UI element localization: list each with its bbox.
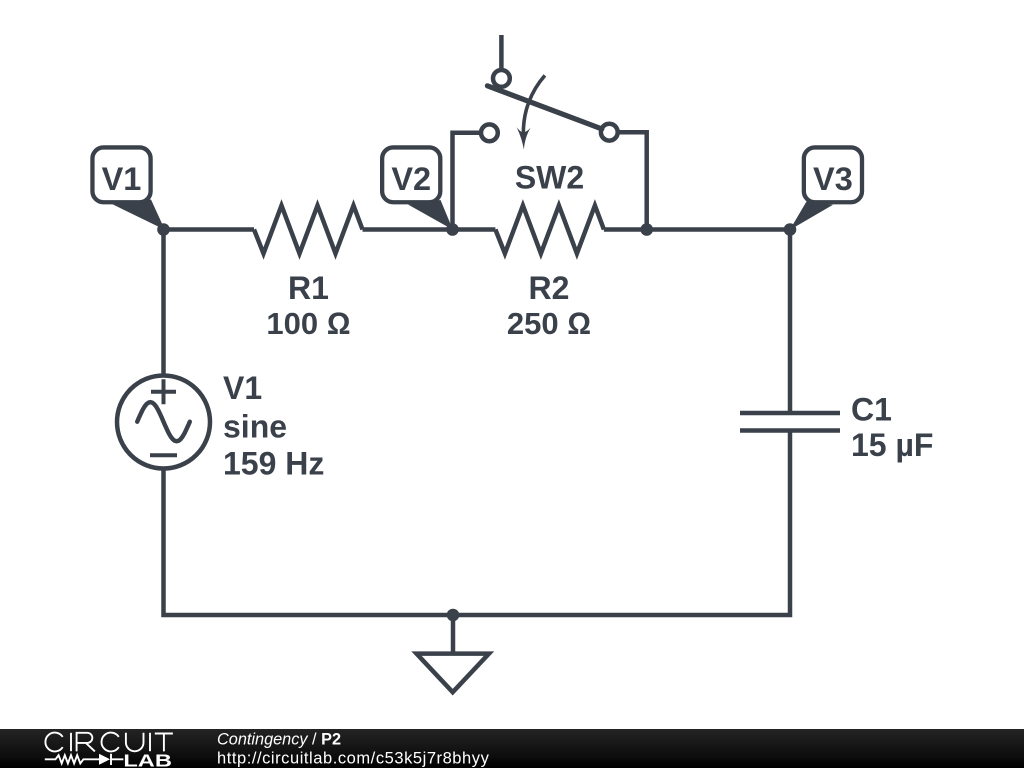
svg-text:V1: V1 xyxy=(223,370,262,406)
wire: R1 to R2 through node V2 xyxy=(363,227,496,232)
source V1 plus sign xyxy=(151,379,176,404)
svg-text:R2: R2 xyxy=(529,270,570,306)
junction node ground xyxy=(447,609,460,622)
node label V2 pointer xyxy=(408,200,453,230)
svg-text:250 Ω: 250 Ω xyxy=(507,306,591,341)
CircuitLab logo resistor-diode line xyxy=(45,754,124,765)
svg-text:R1: R1 xyxy=(288,270,329,306)
resistor R1 xyxy=(254,206,363,254)
node label V2 box xyxy=(382,147,440,202)
svg-text:http://circuitlab.com/c53k5j7r: http://circuitlab.com/c53k5j7r8bhyy xyxy=(217,749,490,767)
resistor R2 xyxy=(495,206,604,254)
wire: V1 node down to source xyxy=(161,230,166,378)
source V1 sine waveform xyxy=(137,402,190,441)
switch SW2 right terminal circle xyxy=(601,124,618,141)
svg-text:C1: C1 xyxy=(851,392,892,428)
svg-text:V3: V3 xyxy=(813,161,853,197)
wire: source to bottom rail, bottom rail, and C1 riser xyxy=(164,431,791,616)
node label V3 pointer xyxy=(790,202,833,231)
node label V1 pointer xyxy=(112,200,165,230)
svg-text:159 Hz: 159 Hz xyxy=(223,446,324,482)
junction node right of R2 xyxy=(640,223,653,236)
svg-text:SW2: SW2 xyxy=(515,160,584,196)
switch SW2 left terminal circle xyxy=(481,124,498,141)
junction node V3 xyxy=(784,223,797,236)
ground symbol xyxy=(417,654,490,693)
switch SW2 actuation arrow arc xyxy=(523,75,545,134)
switch SW2 arrowhead xyxy=(517,127,531,149)
capacitor C1 top plate xyxy=(740,411,840,416)
svg-text:15 µF: 15 µF xyxy=(851,427,933,463)
switch SW2 top stub wire xyxy=(499,35,504,69)
capacitor C1 bottom plate xyxy=(740,428,840,433)
svg-text:100 Ω: 100 Ω xyxy=(266,306,350,341)
junction node V2 xyxy=(446,223,459,236)
source V1 minus sign xyxy=(150,453,177,457)
svg-text:V1: V1 xyxy=(102,161,142,197)
svg-text:sine: sine xyxy=(223,409,287,445)
switch SW2 top terminal circle xyxy=(493,70,510,87)
junction node V1 xyxy=(157,223,170,236)
wire top-left: V1 node to R1 xyxy=(164,227,255,232)
svg-text:V2: V2 xyxy=(391,161,431,197)
switch SW2 left leg wire xyxy=(453,133,480,230)
node label V1 box xyxy=(92,147,150,202)
switch SW2 blade xyxy=(487,86,601,129)
ground stub wire xyxy=(451,615,456,653)
footer bar xyxy=(0,729,1024,768)
switch SW2 right leg wire xyxy=(619,132,647,229)
node label V3 box xyxy=(804,147,862,202)
CircuitLab logo word CIRCUIT xyxy=(45,733,172,752)
svg-text:LAB: LAB xyxy=(123,750,171,768)
wire: V3 node down to C1 xyxy=(788,230,793,414)
voltage source V1 circle xyxy=(117,376,210,469)
wire: R2 to V3 node xyxy=(604,227,790,232)
svg-text:Contingency / P2: Contingency / P2 xyxy=(217,730,341,748)
